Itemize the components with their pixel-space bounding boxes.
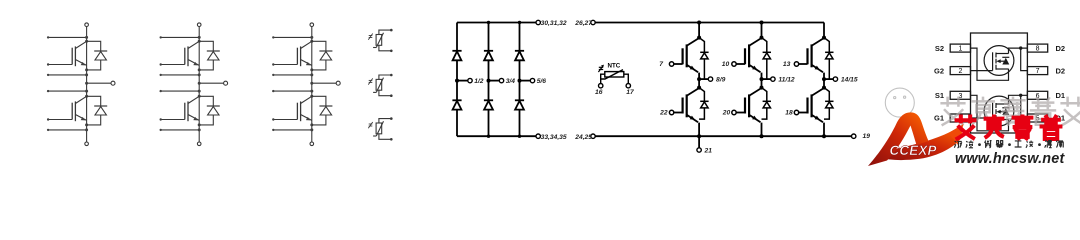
svg-text:CCEXP: CCEXP (890, 143, 937, 158)
svg-text:D2: D2 (1056, 66, 1066, 75)
svg-text:30,31,32: 30,31,32 (541, 20, 567, 27)
svg-text:G2: G2 (934, 66, 944, 75)
svg-text:1: 1 (958, 46, 962, 53)
svg-text:10: 10 (722, 61, 730, 68)
svg-text:2: 2 (958, 68, 962, 75)
svg-text:26,27: 26,27 (574, 20, 592, 27)
svg-text:S2: S2 (935, 44, 944, 53)
svg-text:www.hncsw.net: www.hncsw.net (955, 151, 1065, 166)
svg-text:13: 13 (783, 61, 791, 68)
svg-text:33,34,35: 33,34,35 (541, 134, 567, 141)
svg-text:19: 19 (863, 133, 871, 140)
svg-text:G1: G1 (934, 114, 944, 123)
svg-text:22: 22 (659, 110, 668, 117)
svg-text:14/15: 14/15 (841, 77, 858, 84)
svg-text:24,25: 24,25 (574, 134, 592, 141)
svg-text:S1: S1 (935, 91, 944, 100)
svg-text:7: 7 (659, 61, 663, 68)
svg-text:3/4: 3/4 (506, 78, 516, 85)
svg-text:D1: D1 (1056, 91, 1066, 100)
svg-text:21: 21 (704, 148, 713, 155)
svg-text:1/2: 1/2 (474, 78, 484, 85)
svg-text:NTC: NTC (608, 63, 621, 70)
svg-text:8: 8 (1036, 46, 1040, 53)
svg-text:16: 16 (595, 89, 603, 96)
svg-text:7: 7 (1036, 68, 1040, 75)
svg-text:D2: D2 (1056, 44, 1066, 53)
svg-text:18: 18 (785, 110, 793, 117)
svg-text:5/6: 5/6 (537, 78, 547, 85)
svg-text:20: 20 (722, 110, 731, 117)
svg-text:17: 17 (626, 89, 634, 96)
svg-text:8/9: 8/9 (716, 77, 726, 84)
svg-text:11/12: 11/12 (778, 77, 795, 84)
